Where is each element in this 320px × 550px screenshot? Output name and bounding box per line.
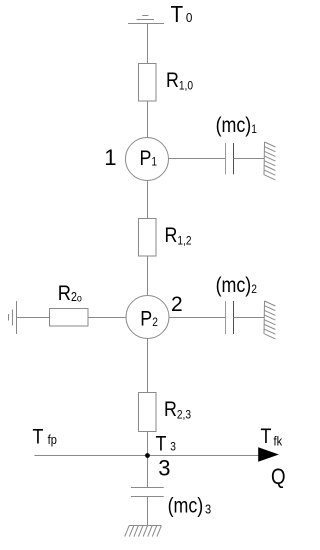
capacitor (mc)2: [226, 301, 234, 334]
wire P1 to R1,2: [147, 181, 149, 219]
svg-text:1: 1: [104, 145, 116, 170]
ground bottom hatched: [125, 526, 162, 537]
wire P2 to capacitor (mc)2: [169, 317, 226, 319]
resistor R1,0: [139, 64, 157, 102]
wall ground 2: [264, 301, 275, 339]
wire R2o to left ground: [17, 317, 50, 319]
capacitor (mc)1: [226, 143, 234, 174]
arrow Q (flow direction): [258, 447, 279, 462]
wire R2,3 to node 3: [147, 432, 149, 456]
wire P2 to R2o: [88, 317, 126, 319]
wire top ground to R1,0: [147, 24, 149, 64]
wire P1 to capacitor (mc)1: [169, 158, 226, 160]
svg-text:(mc)2: (mc)2: [216, 273, 257, 297]
resistor R1,2: [139, 219, 157, 257]
resistor R2o: [50, 309, 89, 327]
wire (mc)2 to wall: [234, 317, 265, 319]
ground T0 (top, inverted): [128, 16, 164, 24]
node 3 junction dot: [145, 453, 150, 458]
wire P2 to R2,3: [147, 339, 149, 393]
svg-text:(mc)1: (mc)1: [216, 114, 257, 138]
svg-text:2: 2: [171, 293, 183, 316]
wire node 3 down to capacitor (mc)3: [147, 456, 149, 488]
wire R1,2 to P2: [147, 256, 149, 296]
svg-text:Q: Q: [271, 466, 286, 490]
wire (mc)1 to wall: [234, 158, 265, 160]
wire R1,0 to P1: [147, 102, 149, 138]
capacitor (mc)3: [131, 488, 164, 497]
node P1: [126, 138, 169, 181]
resistor R2,3: [139, 393, 157, 432]
node P2: [126, 296, 169, 339]
wire fluid line Tfp to arrow: [35, 455, 260, 457]
wall ground 1: [264, 142, 275, 180]
ground left: [9, 301, 17, 334]
wire (mc)3 to ground: [147, 497, 149, 526]
svg-text:3: 3: [158, 455, 170, 480]
